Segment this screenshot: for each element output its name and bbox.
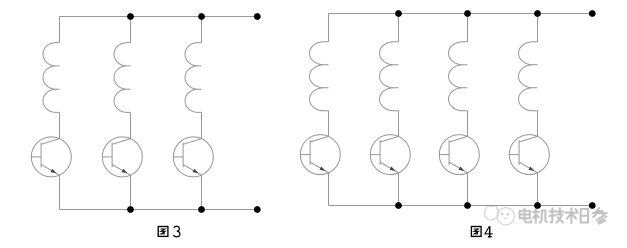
transistor Q4 (NPN) [300, 135, 340, 175]
inductor L4 [310, 42, 329, 111]
branch 2 of fig3 [102, 17, 142, 210]
wire Q4 emitter to bottom rail [328, 173, 330, 206]
wire L5 to Q5 collector [398, 111, 400, 137]
wire top rail to L7 [537, 14, 539, 42]
branch 2 of fig4 [370, 14, 410, 206]
wire top rail to L3 [201, 17, 203, 43]
wire Q5 emitter to bottom rail [398, 173, 400, 206]
terminal bottom right fig3 [254, 206, 261, 213]
caption "图 4" [471, 227, 481, 237]
inductor L6 [449, 42, 468, 111]
wire L3 to Q3 collector [201, 112, 203, 138]
transistor Q1 (NPN) [31, 137, 71, 177]
branch 3 of fig4 [439, 14, 479, 206]
circuit figure 3 [31, 13, 260, 213]
inductor L1 [43, 43, 60, 113]
junction top rail / branch 3 fig3 [198, 13, 205, 20]
wire top rail to L2 [130, 17, 132, 43]
wire Q1 emitter to bottom rail [59, 175, 61, 209]
transistor Q6 (NPN) [439, 135, 479, 175]
branch 1 of fig4 [300, 14, 340, 206]
wire Q7 emitter to bottom rail [537, 173, 539, 206]
caption "图 3" [158, 227, 168, 237]
branch 3 of fig3 [173, 17, 213, 210]
digit 3 of caption [174, 226, 180, 237]
junction bottom rail / branch 3 fig3 [198, 206, 205, 213]
inductor L3 [185, 43, 202, 113]
wire top rail to L5 [398, 14, 400, 42]
wire L4 to Q4 collector [328, 111, 330, 137]
junction top rail / branch 2 fig4 [395, 10, 402, 17]
wire top rail to L4 [328, 14, 330, 42]
wire top rail to L6 [467, 14, 469, 42]
inductor L5 [379, 42, 398, 111]
wire L7 to Q7 collector [537, 111, 539, 137]
wire bottom rail fig3 [60, 209, 258, 211]
transistor Q3 (NPN) [173, 137, 213, 177]
wire bottom rail fig4 [329, 205, 593, 207]
junction bottom rail / branch 2 fig3 [127, 206, 134, 213]
digit 4 of caption [485, 226, 493, 237]
wire top rail to L1 [59, 17, 61, 43]
wire Q2 emitter to bottom rail [130, 175, 132, 209]
junction bottom rail / branch 4 fig4 [534, 202, 541, 209]
circuit figure 4 [300, 10, 595, 209]
wire Q6 emitter to bottom rail [467, 173, 469, 206]
junction bottom rail / branch 2 fig4 [395, 202, 402, 209]
branch 1 of fig3 [31, 17, 71, 210]
wire L6 to Q6 collector [467, 111, 469, 137]
terminal top right fig4 [589, 10, 596, 17]
junction top rail / branch 3 fig4 [464, 10, 471, 17]
wire top rail fig4 [329, 13, 593, 15]
junction top rail / branch 2 fig3 [127, 13, 134, 20]
wire Q3 emitter to bottom rail [201, 175, 203, 209]
transistor Q7 (NPN) [509, 135, 549, 175]
branch 4 of fig4 [509, 14, 549, 206]
wire top rail fig3 [60, 16, 258, 18]
inductor L7 [519, 42, 538, 111]
junction top rail / branch 4 fig4 [534, 10, 541, 17]
wire L2 to Q2 collector [130, 112, 132, 138]
wire L1 to Q1 collector [59, 112, 61, 138]
terminal top right fig3 [254, 13, 261, 20]
terminal bottom right fig4 [589, 202, 596, 209]
transistor Q2 (NPN) [102, 137, 142, 177]
transistor Q5 (NPN) [370, 135, 410, 175]
junction bottom rail / branch 3 fig4 [464, 202, 471, 209]
inductor L2 [114, 43, 131, 113]
watermark: logo + text 电机技术日参 [485, 205, 607, 225]
